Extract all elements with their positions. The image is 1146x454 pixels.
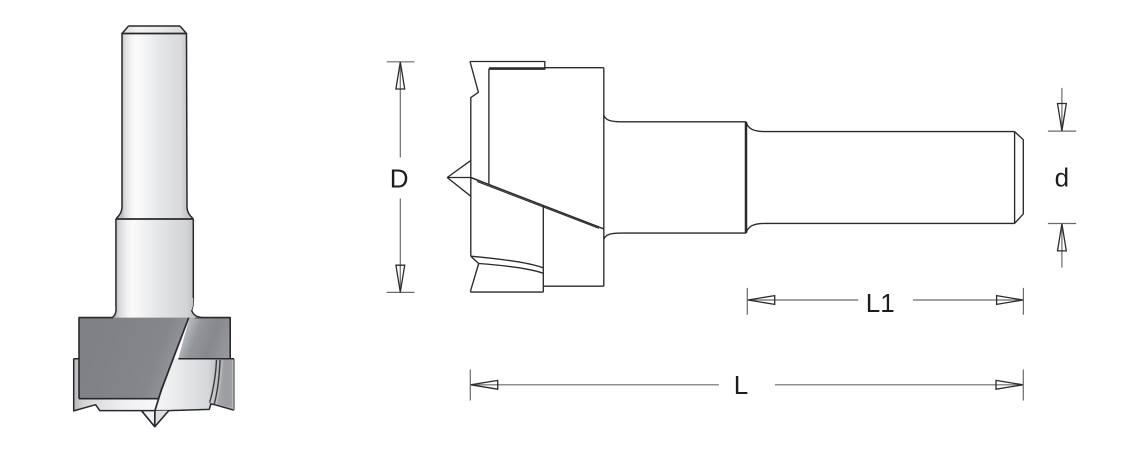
drawing: head top edge thin bbox=[545, 67, 604, 69]
drawing: head cylinder bottom edge bbox=[543, 285, 604, 287]
3D bit: collar outline bbox=[113, 219, 203, 318]
drawing: head left silhouette bbox=[470, 62, 478, 257]
3D bit: collar (wide shank section) bbox=[113, 219, 203, 318]
svg-text:D: D bbox=[390, 164, 409, 194]
drawing: head bottom edge bbox=[470, 291, 543, 293]
drawing: head front right vertical bbox=[542, 206, 544, 292]
drawing: shank end chamfer bbox=[1015, 132, 1024, 224]
drawing: collar top and fillets bbox=[604, 115, 746, 122]
drawing: bottom lip curves bbox=[471, 256, 544, 273]
3D bit: shank outline bbox=[116, 26, 193, 219]
3D bit: head dark body right of cutting edge bbox=[178, 311, 230, 359]
3D bit: cutter head outer rim shell with spurs bbox=[74, 359, 234, 427]
dimension L: extension ticks bbox=[470, 370, 1023, 401]
drawing: collar bottom and fillets bbox=[604, 233, 746, 239]
3D bit: head outline (dark body edges) bbox=[79, 318, 230, 399]
dimension D: arrowheads bbox=[396, 62, 405, 292]
dimension L1: arrowheads bbox=[748, 296, 1023, 305]
drawing: head front inner vertical bbox=[488, 69, 490, 185]
3D bit: flute curves on right rim face bbox=[210, 360, 220, 404]
drawing: head cylinder right edge bbox=[603, 68, 605, 287]
dimension d: arrowheads bbox=[1058, 104, 1067, 251]
dimension L: line bbox=[470, 384, 1023, 386]
drawing: center point bbox=[447, 161, 471, 197]
dimension L: arrowheads bbox=[471, 380, 1023, 389]
dimension d: top tick and line bbox=[1048, 88, 1076, 131]
3D bit: center point (brad point) bbox=[142, 411, 169, 427]
drawing: head top edge thick bbox=[489, 67, 546, 70]
drawing: collar shoulder face thick bbox=[745, 122, 748, 233]
3D bit: rim top edge line bbox=[74, 358, 234, 360]
dimension L1: line bbox=[747, 299, 1023, 301]
dimension D: vertical line bbox=[399, 62, 401, 293]
dimension d: bottom tick and line bbox=[1048, 224, 1076, 268]
drawing: bottom lip left slant bbox=[470, 256, 478, 292]
3D bit: right rim shading band bbox=[217, 360, 232, 407]
drawing: cutting edge diagonal double line bbox=[471, 178, 604, 229]
3D bit: head dark body left of cutting edge bbox=[79, 295, 193, 399]
dimension L1: extension ticks bbox=[747, 288, 1023, 315]
dimension D: extension ticks bbox=[387, 62, 415, 293]
svg-text:L: L bbox=[734, 370, 748, 400]
3D bit: shank top chamfer face bbox=[122, 26, 187, 34]
svg-text:d: d bbox=[1055, 162, 1069, 192]
drawing: spur top edge bbox=[470, 62, 545, 68]
3D bit: spiral cutting edge diagonal bbox=[155, 298, 194, 427]
3D bit: shank narrow body bbox=[116, 34, 193, 220]
drawing: shank top line with neck fillet bbox=[746, 122, 1015, 132]
drawing: shank bottom line with neck fillet bbox=[746, 223, 1015, 233]
svg-text:L1: L1 bbox=[866, 288, 895, 318]
